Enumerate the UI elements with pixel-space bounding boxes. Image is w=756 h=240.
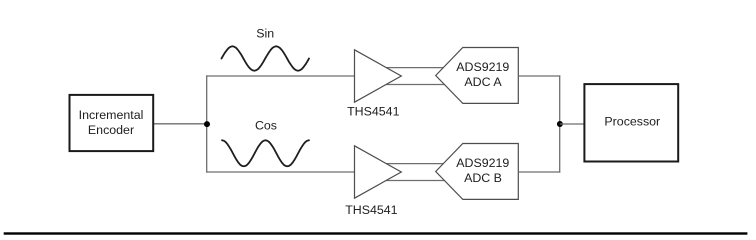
node junction dot right (557, 121, 563, 127)
svg-text:Incremental: Incremental (79, 108, 144, 122)
op-amp B THS4541 (triangle) (355, 146, 402, 198)
wire left bus vertical (206, 75, 208, 172)
wire bottom branch (206, 171, 355, 173)
svg-text:ADC B: ADC B (464, 171, 502, 185)
bottom rule (4, 232, 748, 234)
ADC A ADS9219 (436, 48, 519, 104)
svg-text:THS4541: THS4541 (347, 105, 399, 119)
wire encoder to left junction (153, 123, 207, 125)
wire right bus vertical (559, 75, 561, 172)
svg-text:Cos: Cos (255, 118, 277, 132)
box Processor (584, 84, 678, 161)
svg-text:ADS9219: ADS9219 (456, 60, 509, 74)
wire differential pair B upper (380, 163, 450, 165)
node junction dot left (204, 121, 210, 127)
svg-text:Encoder: Encoder (88, 123, 134, 137)
wire junction to processor (560, 123, 585, 125)
wire ADC B output (518, 171, 560, 173)
wire top branch (206, 75, 355, 77)
ADC B ADS9219 (436, 144, 519, 200)
svg-text:ADC A: ADC A (464, 75, 502, 89)
sine wave symbol (222, 46, 310, 70)
wire ADC A output (518, 75, 560, 77)
svg-text:ADS9219: ADS9219 (456, 156, 509, 170)
svg-text:Sin: Sin (256, 26, 274, 40)
box Incremental Encoder (70, 95, 154, 151)
op-amp A THS4541 (triangle) (355, 50, 402, 102)
svg-text:THS4541: THS4541 (345, 203, 397, 217)
wire differential pair A lower (380, 84, 450, 86)
wire differential pair B lower (380, 180, 450, 182)
wire differential pair A upper (380, 67, 450, 69)
svg-text:Processor: Processor (604, 115, 660, 129)
cosine wave symbol (222, 140, 309, 166)
